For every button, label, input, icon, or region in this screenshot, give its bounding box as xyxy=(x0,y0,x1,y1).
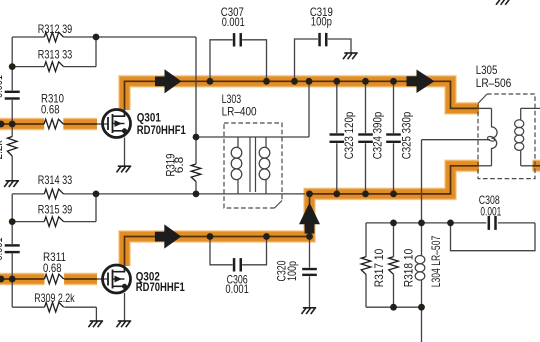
wire: L303 top line xyxy=(196,136,309,138)
svg-text:R309 2.2k: R309 2.2k xyxy=(34,291,75,305)
transformer L305 LR-506 dashed box xyxy=(478,94,535,179)
svg-text:0.68: 0.68 xyxy=(43,261,62,275)
svg-text:0.001: 0.001 xyxy=(0,237,5,260)
resistor (left edge, partially cut) xyxy=(7,137,17,157)
wire: R312 row corner down to L303 top line (crosses drive bus, no junction) xyxy=(195,37,197,137)
capacitor C320 100p xyxy=(302,268,317,270)
svg-text:0.001: 0.001 xyxy=(0,75,5,98)
wire: L304 leads xyxy=(421,223,423,307)
wire: R319 leads xyxy=(195,137,197,194)
transformer L303 LR-400 dashed box xyxy=(224,123,282,208)
wire R309 row xyxy=(12,306,96,308)
wire: C307 left leg xyxy=(210,40,233,82)
node: damping network top junctions xyxy=(390,220,397,227)
capacitor C324 390p xyxy=(358,133,373,135)
wire left rail: R313 down to capacitor xyxy=(11,67,13,91)
svg-text:L305: L305 xyxy=(476,63,498,77)
arrow: signal direction up the combining riser xyxy=(299,203,320,234)
node: output line junctions xyxy=(93,191,100,198)
node: gate1 rail junctions xyxy=(0,121,4,128)
capacitor C306 0.001 xyxy=(233,258,236,271)
transformer L303 core xyxy=(250,138,256,193)
ground (R309) xyxy=(88,321,103,327)
ground (top right, cut off) xyxy=(496,0,511,5)
svg-text:C323 120p: C323 120p xyxy=(342,111,356,159)
node: R312 right junction xyxy=(93,34,100,41)
wire left rail top: R312 left end down to R313 xyxy=(11,37,13,67)
capacitor C319 100p xyxy=(318,33,321,46)
wire: C306 left leg xyxy=(210,237,233,265)
svg-text:100p: 100p xyxy=(311,15,332,29)
transformer L303 left winding xyxy=(237,137,239,194)
wire R313 row xyxy=(12,66,96,68)
svg-text:0.001: 0.001 xyxy=(222,15,245,29)
wire left rail: capacitor to gate1 node xyxy=(11,100,13,124)
transformer L305 right winding xyxy=(520,108,522,165)
resistor R311 0.68 xyxy=(45,274,64,284)
wire: C306 right leg xyxy=(242,237,266,265)
wire: L305 left winding bottom lead xyxy=(479,165,492,167)
ground (Q302 source) xyxy=(117,321,132,327)
svg-text:C325 330p: C325 330p xyxy=(399,111,413,159)
wire: C325 leads xyxy=(393,81,395,194)
svg-text:6.8: 6.8 xyxy=(172,156,186,173)
capacitor C325 330p xyxy=(386,133,401,135)
wire R315 row xyxy=(12,221,96,223)
arrow: signal direction on Q302 drain path xyxy=(155,224,181,248)
wire: C324 leads xyxy=(365,81,367,194)
node: gate2 rail junctions xyxy=(0,276,4,283)
transistor Q301 RD70HHF1 xyxy=(103,110,131,138)
svg-text:R312 39: R312 39 xyxy=(38,22,73,36)
wire: C320 top lead xyxy=(309,237,311,268)
node: damping network bottom junctions xyxy=(390,304,397,311)
wire: Q302 source to ground xyxy=(124,293,126,321)
svg-text:LR–400: LR–400 xyxy=(222,104,257,118)
capacitor C307 0.001 xyxy=(233,33,236,46)
resistor R310 0.68 xyxy=(44,119,63,129)
svg-text:C324 390p: C324 390p xyxy=(370,111,384,159)
arrow: signal direction on drive bus (before L305) xyxy=(407,70,435,94)
wire left rail: gate2 node down to R309 row xyxy=(11,279,13,307)
wire: gate1 lead from orange into Q301 xyxy=(96,123,108,125)
wire: Q302 drain lead xyxy=(124,264,126,272)
wire: dark conductor line inside orange path xyxy=(0,81,540,279)
resistor R318 10 xyxy=(389,257,399,275)
wire: R309 right end down to ground xyxy=(95,307,97,320)
resistor R317 10 xyxy=(361,257,371,275)
wire: Q301 drain lead xyxy=(124,108,126,116)
wire: C319 left leg xyxy=(295,39,318,81)
wire: gate2 lead from orange into Q302 xyxy=(96,278,108,280)
wire: vertical resistor to ground xyxy=(11,156,13,181)
wire R312 row xyxy=(12,36,196,38)
wire: highlighted signal path (orange glow layers) xyxy=(0,81,540,279)
wire left rail: gate1 node down to vertical resistor xyxy=(11,124,13,137)
wire: R318 leads xyxy=(393,223,395,307)
svg-text:R313 33: R313 33 xyxy=(38,48,73,62)
svg-text:RD70HHF1: RD70HHF1 xyxy=(136,280,185,294)
wire: R315 right end up to R314 row xyxy=(95,194,97,222)
wire: L305 right winding top lead exits right xyxy=(521,107,540,109)
wire: L305 left winding top lead from dogleg xyxy=(479,107,492,109)
wire: C308 loop right/bottom/left xyxy=(451,223,536,251)
svg-text:LR–506: LR–506 xyxy=(476,76,512,90)
capacitor C323 120p xyxy=(330,133,345,135)
ground (C319) xyxy=(343,53,358,59)
wire: L303 top line riser to drive bus xyxy=(308,81,310,137)
svg-text:R314 33: R314 33 xyxy=(38,173,73,187)
resistor R309 2.2k xyxy=(45,302,64,312)
resistor R315 39 xyxy=(44,217,63,227)
transistor Q302 RD70HHF1 xyxy=(103,265,131,293)
wire: L305 right winding bottom lead to output stub xyxy=(521,165,533,167)
wire: R317 leads xyxy=(365,223,367,307)
wire: output/drain2 line left portion (R314 row to L303 bottom) xyxy=(12,193,305,195)
svg-text:0.001: 0.001 xyxy=(480,204,501,218)
resistor R314 33 xyxy=(44,189,63,199)
svg-text:R315 39: R315 39 xyxy=(38,202,73,216)
svg-text:0.001: 0.001 xyxy=(225,282,249,296)
wire: damping network top line xyxy=(366,222,451,224)
inductor L304 LR-507 xyxy=(415,256,425,281)
wire left rail: capacitor to gate2 node xyxy=(11,253,13,279)
svg-text:R317 10: R317 10 xyxy=(372,248,386,287)
capacitor (left edge top) 0.001 xyxy=(5,91,20,93)
wire: Q301 source to ground xyxy=(124,138,126,167)
wire: L305 center tap line xyxy=(422,139,491,141)
ground (left rail top) xyxy=(4,181,19,187)
transformer L305 box corner notch xyxy=(478,94,487,104)
node: L303 top line junction xyxy=(193,134,200,141)
wire: C307 right leg xyxy=(242,40,266,82)
arrow: signal direction on drive bus (after Q301) xyxy=(155,69,181,93)
resistor R312 39 xyxy=(44,32,63,42)
wire: R313 right end up to R312 row xyxy=(95,37,97,67)
svg-text:2.2k: 2.2k xyxy=(0,140,5,160)
svg-text:L304 LR–507: L304 LR–507 xyxy=(429,236,443,288)
wire: C320 bottom lead to ground xyxy=(309,276,311,307)
wire: bias feed exits image bottom xyxy=(421,307,423,342)
node: Q302 drain path junctions xyxy=(207,233,214,240)
wire left rail: R315 node down to capacitor xyxy=(11,222,13,245)
resistor R319 6.8 xyxy=(191,164,201,182)
resistor R313 33 xyxy=(44,62,63,72)
node: R313 left junction xyxy=(9,63,16,70)
wire: damping network bottom line xyxy=(366,306,422,308)
wire: C308 loop top with stub xyxy=(451,222,536,224)
wire: C319 right leg to ground xyxy=(328,39,351,53)
wire: C323 leads xyxy=(336,81,338,194)
svg-text:R318 10: R318 10 xyxy=(401,248,415,287)
node: R315 left junction xyxy=(9,218,16,225)
transformer L303 box corner notch xyxy=(275,201,283,209)
capacitor C308 0.001 xyxy=(488,216,491,230)
node: drive bus junctions xyxy=(207,78,214,85)
svg-text:0.68: 0.68 xyxy=(41,103,60,117)
capacitor (left edge bottom) 0.001 xyxy=(5,244,20,246)
wire: center tap feed down to damping network (crosses output bus, no junction) xyxy=(421,140,423,223)
ground (Q301 source) xyxy=(117,166,132,172)
wire: left rail bottom R314 down to R315 xyxy=(11,194,13,222)
svg-text:RD70HHF1: RD70HHF1 xyxy=(137,123,186,137)
transformer L305 left winding (two bumps with center tap) xyxy=(492,108,498,165)
transformer L303 right winding xyxy=(265,137,267,194)
svg-text:100p: 100p xyxy=(285,261,299,281)
ground (C320) xyxy=(302,308,317,314)
